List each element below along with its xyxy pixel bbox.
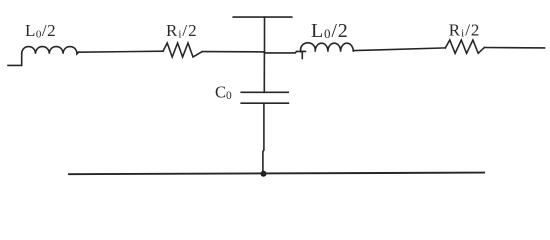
wire bottom rail	[69, 173, 484, 175]
label Ri/2 (right resistor)	[449, 20, 481, 39]
junction dot (bottom node)	[261, 171, 267, 177]
capacitor C0 top plate	[241, 91, 288, 93]
svg-text:Ri/2: Ri/2	[166, 21, 198, 40]
stub below right inductor entry	[301, 51, 303, 58]
label Ri/2 (left resistor)	[166, 21, 198, 40]
label C0 (capacitor)	[215, 83, 232, 102]
wire right inductor to right resistor	[354, 48, 446, 51]
wire left resistor to center node	[202, 51, 264, 53]
wire right resistor to right edge	[484, 47, 544, 49]
wire left entry stub	[8, 54, 22, 66]
label L0/2 (right inductor)	[311, 20, 349, 42]
inductor L0/2 (left)	[22, 47, 79, 54]
svg-text:C0: C0	[215, 83, 232, 102]
svg-text:L0/2: L0/2	[25, 21, 56, 40]
resistor Ri/2 (right)	[445, 40, 484, 53]
wire inductor to left resistor	[79, 51, 164, 52]
terminal bar (top)	[233, 16, 292, 18]
node (center junction)	[263, 52, 265, 92]
capacitor C0 bottom plate	[241, 102, 288, 104]
svg-text:L0/2: L0/2	[311, 20, 349, 42]
inductor L0/2 (right)	[300, 43, 353, 52]
wire center node to right inductor	[264, 51, 305, 53]
wire capacitor to bottom rail	[263, 103, 264, 174]
label L0/2 (left inductor)	[25, 21, 56, 40]
resistor Ri/2 (left)	[163, 43, 202, 57]
svg-text:Ri/2: Ri/2	[449, 20, 481, 39]
wire terminal bar to node	[264, 17, 266, 52]
